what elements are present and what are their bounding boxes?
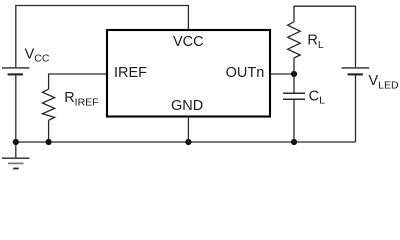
svg-text:RL: RL bbox=[307, 33, 323, 51]
wire: output node up to RL bottom bbox=[293, 58, 295, 74]
wire: IREF pin to resistor RIREF top bbox=[49, 74, 106, 89]
capacitor CL bbox=[283, 93, 305, 99]
node: junction RIREF/ground bbox=[46, 139, 52, 145]
wire: VLED negative down to ground bus right end bbox=[355, 74, 357, 142]
op-amp U1 driver IC box bbox=[107, 30, 270, 117]
wire: Vcc positive terminal up and across to VCC pin bbox=[16, 6, 189, 68]
node: junction CL/ground bbox=[291, 139, 297, 145]
wire: ground bus bbox=[16, 141, 356, 143]
svg-text:VCC: VCC bbox=[173, 34, 204, 50]
ground bbox=[2, 142, 30, 169]
wire: CL bottom to ground bus bbox=[293, 99, 295, 142]
svg-text:OUTn: OUTn bbox=[226, 65, 265, 81]
wire: output node down to CL top bbox=[293, 74, 295, 93]
svg-text:VCC: VCC bbox=[25, 46, 50, 64]
resistor RIREF bbox=[42, 89, 54, 120]
wire: GND pin to ground bus bbox=[187, 116, 189, 142]
svg-text:VLED: VLED bbox=[369, 73, 400, 91]
wire: OUTn pin to output node bbox=[270, 73, 294, 75]
svg-text:CL: CL bbox=[309, 89, 325, 107]
battery VCC source bbox=[2, 68, 30, 75]
node: output junction OUTn/RL/CL bbox=[291, 71, 297, 77]
svg-text:RIREF: RIREF bbox=[64, 90, 98, 108]
svg-text:IREF: IREF bbox=[114, 65, 147, 81]
node: junction Vcc/ground bbox=[13, 139, 19, 145]
battery VLED source bbox=[342, 68, 370, 75]
svg-text:GND: GND bbox=[171, 98, 203, 114]
wire: Vcc negative terminal down to ground bus bbox=[15, 74, 17, 142]
node: junction GND pin/ground bbox=[185, 139, 191, 145]
resistor RL bbox=[288, 22, 301, 58]
wire: RIREF bottom to ground bus bbox=[48, 120, 50, 142]
wire: RL top across to VLED positive bbox=[294, 6, 356, 67]
